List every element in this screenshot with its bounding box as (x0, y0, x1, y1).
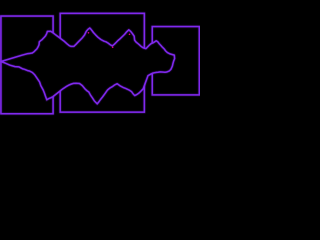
pink marker dot below peak3 (129, 34, 131, 36)
right rectangle (152, 27, 199, 95)
pink marker dot near peak2 (88, 32, 90, 34)
pink marker dot below valley2 (112, 47, 114, 49)
left rectangle (1, 16, 53, 114)
middle rectangle (60, 13, 144, 112)
